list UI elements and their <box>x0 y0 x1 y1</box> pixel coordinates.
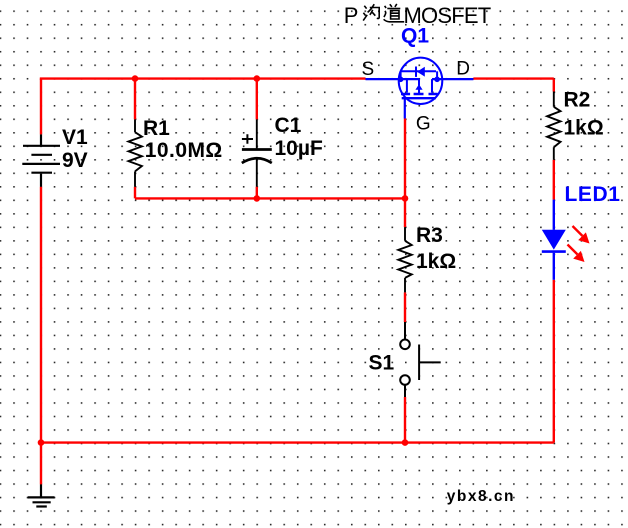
transistor Q1 body circle <box>399 58 443 104</box>
svg-text:S: S <box>362 59 375 80</box>
svg-text:ybx8.cn: ybx8.cn <box>447 488 515 505</box>
wire left vertical battery top <box>40 79 42 135</box>
wire bottom rail <box>41 441 554 443</box>
Q1 body diode triangle <box>417 67 425 77</box>
node C1 top junction <box>253 75 260 82</box>
node C1 bottom junction <box>253 195 260 202</box>
svg-text:V1: V1 <box>62 126 88 149</box>
wire D lead (blue) <box>432 78 473 80</box>
resistor R1 <box>129 119 142 186</box>
Q1 top bar <box>401 70 436 72</box>
resistor R2 <box>547 92 560 160</box>
node bottom-left junction <box>38 439 45 446</box>
Q1 drain contact vertical <box>431 79 433 93</box>
Q1 channel bars <box>401 93 438 95</box>
node R1 top junction <box>132 75 139 82</box>
svg-text:1kΩ: 1kΩ <box>564 116 604 139</box>
node gate junction <box>402 195 409 202</box>
LED1 emission arrow 1 <box>568 226 590 262</box>
svg-text:10.0MΩ: 10.0MΩ <box>145 139 223 162</box>
hanzi gou (channel) <box>363 4 379 20</box>
wire R3 to switch <box>404 292 406 322</box>
wire C1 bottom <box>256 187 258 199</box>
wire LED to bottom rail <box>553 280 555 443</box>
wire R1C1 bottom rail to gate node <box>135 197 405 199</box>
wire top rail left (battery+ to MOSFET S) <box>41 77 366 78</box>
LED1 emission arrow 2 <box>568 245 578 255</box>
svg-text:C1: C1 <box>275 114 302 137</box>
wire top rail right (MOSFET D to R2 corner) <box>473 77 553 79</box>
battery V1 <box>22 134 60 186</box>
svg-text:G: G <box>416 113 431 134</box>
Q1 substrate stem <box>418 79 420 93</box>
svg-text:R1: R1 <box>143 117 170 140</box>
wire switch to bottom rail <box>404 397 406 443</box>
switch S1 (push button) <box>400 322 441 397</box>
Q1 gate bar <box>402 97 436 99</box>
wire left vertical battery bottom to ground <box>40 187 42 485</box>
svg-text:R2: R2 <box>564 89 591 112</box>
svg-text:MOSFET: MOSFET <box>404 3 491 28</box>
wire gate lead (blue) <box>404 98 406 118</box>
Q1 drain post dot <box>434 77 440 83</box>
ground <box>28 484 55 506</box>
wire S lead (blue) <box>366 78 420 80</box>
Q1 body diode bar <box>415 67 417 77</box>
wire C1 top <box>256 79 258 120</box>
Q1 right post <box>436 71 438 79</box>
LED1 triangle <box>542 230 566 250</box>
svg-text:S1: S1 <box>369 352 395 375</box>
svg-text:10µF: 10µF <box>275 137 323 160</box>
resistor R3 <box>398 227 411 292</box>
svg-text:9V: 9V <box>62 149 88 172</box>
transistor Q1 (P-channel MOSFET) <box>366 58 474 119</box>
svg-text:LED1: LED1 <box>565 183 621 206</box>
wire R1 top <box>134 79 136 120</box>
svg-text:P: P <box>344 3 359 28</box>
Q1 source post dot <box>398 77 404 83</box>
svg-text:R3: R3 <box>416 224 443 247</box>
svg-text:D: D <box>456 59 470 80</box>
wire right vertical R2 top lead <box>553 79 555 92</box>
capacitor C1 <box>242 119 272 186</box>
Q1 source contact vertical <box>406 79 408 93</box>
wire R1 bottom <box>134 187 136 199</box>
LED LED1 <box>542 200 566 280</box>
node switch-bottom junction <box>402 439 409 446</box>
svg-text:1kΩ: 1kΩ <box>416 250 456 273</box>
hanzi dao (way) <box>384 4 405 22</box>
wire gate vertical <box>404 119 406 228</box>
Q1 left post <box>400 71 402 79</box>
wire R2 to LED <box>553 160 555 200</box>
Q1 substrate arrow head <box>415 84 422 90</box>
